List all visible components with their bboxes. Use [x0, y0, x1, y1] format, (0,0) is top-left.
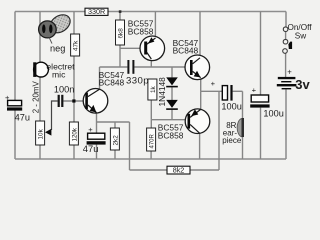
capacitor 100n (mic coupling)	[54, 85, 74, 107]
wire: output node to Q4 emitter	[200, 91, 202, 109]
svg-text:330R: 330R	[88, 7, 105, 16]
wire: 6k8 bottom to Q2 base node	[119, 45, 121, 67]
wire: bottom ground rail	[15, 158, 286, 160]
transistor Q2 BC557/BC858 (second stage PNP)	[140, 36, 165, 61]
svg-text:mic: mic	[52, 70, 66, 80]
potentiometer 10k volume with wiper arrow	[36, 121, 52, 145]
wire: 8k2 loop left horizontal	[130, 169, 168, 171]
svg-text:2k2: 2k2	[113, 135, 120, 146]
resistor 1k (Q2 collector load)	[148, 79, 157, 100]
electret mic photo (3D) body	[46, 11, 73, 36]
wire: right branch top corner to switch	[285, 12, 287, 28]
svg-text:Sw: Sw	[295, 32, 306, 41]
svg-text:neg: neg	[50, 43, 65, 53]
svg-text:6k8: 6k8	[118, 28, 125, 39]
svg-text:8k2: 8k2	[173, 166, 185, 175]
wire: Q3 emitter to output node	[200, 77, 202, 91]
electret mic photo front face	[39, 21, 57, 38]
svg-text:1N4148: 1N4148	[157, 77, 167, 107]
svg-text:100u: 100u	[221, 102, 241, 112]
transistor Q3 BC547/BC848 (driver NPN)	[185, 55, 210, 80]
wire: 47u bypass to ground	[96, 145, 98, 159]
wire: emitter node to 47u bypass	[96, 122, 98, 133]
resistor 120k (Q1 base bias)	[69, 122, 78, 145]
leader line: neg terminal	[49, 38, 52, 44]
svg-text:100u: 100u	[263, 109, 283, 119]
svg-text:BC848: BC848	[99, 77, 125, 87]
wire: 2k2 bottom to ground	[114, 150, 116, 159]
wire: Q2 base lead	[120, 47, 144, 49]
battery 3v	[277, 68, 311, 93]
resistor 470R (bias lower)	[147, 128, 156, 151]
svg-text:47u: 47u	[15, 112, 30, 122]
svg-text:+: +	[287, 68, 292, 77]
transistor Q1 BC547/BC848 (first stage NPN)	[83, 89, 108, 114]
wire: first collector node horizontal (to 330p)	[100, 66, 128, 68]
wire: left supply branch upper segment	[14, 12, 16, 101]
wire: feedback right riser to output node	[218, 91, 220, 170]
wire: bias tap to 470R	[150, 120, 152, 128]
svg-text:10k: 10k	[38, 128, 45, 139]
wire: top positive supply rail	[15, 11, 286, 13]
diode D2 1N4148	[166, 100, 178, 110]
svg-text:47k: 47k	[73, 40, 80, 51]
wire: earpiece top lead	[242, 91, 244, 118]
wire: base node down to 120k	[73, 101, 75, 122]
node: rail/6k8 junction dot	[119, 10, 122, 13]
svg-text:+: +	[5, 93, 10, 102]
wire: 120k bottom to ground	[73, 145, 75, 159]
wire: coupling cap to earpiece	[233, 90, 243, 92]
wire: 6k8 top to rail	[119, 12, 121, 21]
wire: Q3 collector to rail	[199, 12, 201, 58]
svg-text:+: +	[211, 79, 216, 88]
transistor Q4 BC557/BC858 (output PNP)	[185, 109, 210, 134]
resistor 2k2 (Q1 emitter)	[110, 128, 119, 150]
resistor 8k2 (feedback)	[167, 166, 190, 175]
wire: right 100u top lead from rail	[260, 12, 262, 96]
wire: 47k bottom to base node	[73, 56, 75, 101]
svg-text:2 - 20mV: 2 - 20mV	[32, 81, 41, 114]
wire: Q4 collector to ground	[199, 133, 201, 159]
wire: right 100u bottom lead to ground	[260, 108, 262, 159]
wire: switch to battery plus	[285, 53, 287, 77]
wire: Q2 collector drop	[150, 59, 152, 67]
wire: emitter node horizontal	[97, 121, 130, 123]
wire: 1k bottom to bias tap	[150, 100, 152, 120]
wire: 100n to Q1 base	[63, 100, 85, 102]
wire: left supply branch lower segment	[14, 110, 16, 159]
wire: switch middle link	[285, 31, 287, 39]
wire: 8k2 loop right horizontal	[190, 169, 219, 171]
node: Q1 base junction dot	[72, 99, 75, 102]
wire: earpiece bottom lead	[242, 137, 244, 159]
svg-text:+: +	[252, 86, 257, 95]
wire: pot wiper riser	[52, 101, 58, 130]
svg-text:47u: 47u	[83, 143, 99, 154]
resistor 47k (mic load)	[71, 34, 80, 56]
switch On/Off contacts	[283, 27, 292, 53]
capacitor 330p (compensation)	[126, 60, 149, 87]
resistor 330R (supply decoupling)	[85, 7, 108, 16]
capacitor 47u electrolytic (emitter bypass)	[83, 125, 106, 154]
wire: feedback left drop (emitter node to 8k2 loop)	[129, 122, 131, 170]
capacitor 100u electrolytic (output coupling)	[211, 79, 242, 112]
wire: volume pot bottom to ground	[39, 145, 41, 159]
svg-text:+: +	[88, 125, 93, 134]
resistor 6k8 (Q2 base feed)	[116, 20, 125, 45]
wire: 470R bottom to ground	[150, 151, 152, 159]
wire: battery minus to ground rail	[285, 90, 287, 160]
wire: driver base node horizontal (330p to Q3 base)	[134, 66, 190, 68]
wire: output node to 100u coupling cap	[201, 90, 223, 92]
svg-text:3v: 3v	[295, 77, 310, 92]
wire: diode chain top lead	[171, 67, 173, 77]
svg-text:470R: 470R	[150, 133, 156, 148]
capacitor 100u electrolytic (supply reservoir)	[250, 86, 284, 119]
wire: Q4 base horizontal	[151, 119, 187, 121]
svg-text:100n: 100n	[54, 85, 74, 95]
electret mic symbol	[33, 62, 48, 77]
svg-text:BC858: BC858	[158, 131, 184, 141]
svg-text:BC848: BC848	[173, 46, 199, 56]
earpiece 8R symbol	[237, 118, 244, 137]
wire: mic to volume pot	[39, 77, 41, 121]
wire: Q1 emitter drop	[96, 113, 98, 122]
wire: diode chain bottom lead	[171, 110, 173, 120]
capacitor 47u electrolytic (supply filter, on left rail)	[5, 93, 30, 122]
svg-text:330p: 330p	[126, 76, 149, 87]
diode D1 1N4148	[166, 77, 178, 87]
svg-text:piece: piece	[222, 136, 242, 145]
svg-text:120k: 120k	[71, 127, 78, 141]
svg-text:BC858: BC858	[128, 27, 154, 37]
wire: Q1 collector riser	[99, 67, 101, 89]
wire: 2k2 stub	[114, 122, 116, 128]
wire: diode interlink	[171, 87, 173, 100]
wire: mic supply drop	[39, 12, 41, 63]
wire: Q2 emitter to rail	[154, 12, 156, 39]
wire: 47k top to rail	[73, 12, 75, 35]
